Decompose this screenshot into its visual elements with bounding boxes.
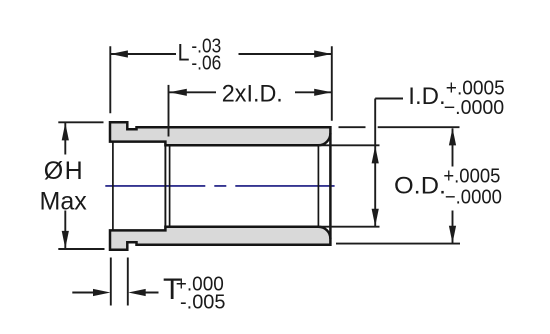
svg-text:+.0005: +.0005: [443, 166, 500, 188]
L dimension line left segment: [111, 53, 176, 55]
2xI.D. extension line: [168, 85, 170, 137]
svg-text:L: L: [178, 39, 190, 66]
H dimension line lower segment: [64, 211, 66, 249]
L left arrowhead: [110, 50, 128, 57]
svg-text:O.D.: O.D.: [394, 173, 446, 200]
svg-text:-.06: -.06: [191, 53, 221, 75]
I.D. dimension vertical line: [374, 99, 376, 227]
I.D. top extension line (bore top): [318, 144, 379, 146]
counterbore step inner edge: [169, 145, 171, 226]
2xI.D. left arrowhead: [169, 89, 187, 96]
svg-text:Max: Max: [40, 188, 88, 216]
H upper arrowhead: [62, 123, 69, 140]
T left arrowhead: [93, 289, 111, 296]
bushing section upper band: [110, 122, 330, 145]
svg-text:2xI.D.: 2xI.D.: [222, 80, 283, 107]
svg-text:−.0000: −.0000: [445, 187, 502, 209]
centerline (bushing axis): [105, 185, 334, 187]
2xI.D. dimension line left segment: [169, 91, 216, 93]
H lower arrowhead: [62, 231, 69, 249]
L right arrowhead: [314, 50, 332, 57]
bore entry radius silhouette (right): [317, 145, 319, 226]
svg-text:-.005: -.005: [180, 291, 226, 313]
svg-text:ØH: ØH: [44, 157, 84, 185]
svg-text:I.D.: I.D.: [408, 83, 445, 110]
H dimension line upper segment: [64, 123, 66, 155]
right end face across bore: [329, 133, 332, 238]
O.D. top extension line segment a: [339, 126, 366, 128]
T right extension line: [127, 258, 129, 306]
bushing section lower band: [110, 227, 330, 250]
counterbore silhouette line (left bore): [112, 142, 114, 231]
T right arrow shaft: [140, 292, 158, 294]
2xI.D. dimension line right segment: [295, 91, 331, 93]
O.D. dimension line lower segment: [452, 211, 454, 244]
O.D. lower arrowhead: [449, 226, 456, 244]
L dimension line right segment: [239, 53, 332, 55]
counterbore step edge: [164, 143, 166, 230]
svg-text:−.0000: −.0000: [444, 97, 505, 119]
O.D. dimension line upper segment: [452, 128, 454, 166]
I.D. lower arrowhead: [372, 209, 379, 227]
O.D. bottom extension line: [336, 243, 460, 245]
2xI.D. right arrowhead: [314, 89, 332, 96]
H dimension top extension line: [58, 121, 103, 123]
O.D. upper arrowhead: [449, 128, 456, 145]
O.D. top extension line segment b: [378, 126, 460, 128]
L dimension left extension line: [109, 46, 111, 113]
I.D. leader horizontal: [375, 98, 403, 100]
I.D. bottom extension line (bore bottom): [318, 226, 379, 228]
I.D. upper arrowhead: [372, 146, 379, 164]
T left arrow shaft: [72, 292, 98, 294]
T right arrowhead: [128, 289, 146, 296]
T left extension line: [110, 258, 112, 306]
H dimension bottom extension line: [58, 248, 104, 250]
L / 2xI.D. right extension line: [331, 46, 333, 121]
